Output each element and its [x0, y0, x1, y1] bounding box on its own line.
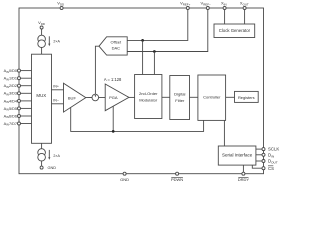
wire digital filter to controller [190, 96, 198, 98]
pin AIN0/D0 [18, 69, 21, 72]
registers block [235, 91, 259, 102]
pin AIN3/D3 [18, 92, 21, 95]
svg-text:VDD: VDD [38, 20, 45, 26]
svg-text:Registers: Registers [238, 95, 255, 100]
svg-text:IN−: IN− [53, 99, 59, 103]
svg-text:AIN1/D1: AIN1/D1 [4, 77, 17, 82]
wire serial interface to CS pin [252, 165, 262, 168]
wire serial interface to SCLK pin [256, 148, 262, 150]
wire VREF+ junction down to modulator [142, 40, 144, 74]
svg-text:AIN2/D2: AIN2/D2 [4, 84, 17, 89]
chip outline U1 [19, 8, 264, 174]
digital filter block [170, 76, 190, 120]
svg-text:PGA: PGA [109, 95, 118, 100]
pin DIN [262, 153, 265, 156]
pin PDWN (active low, bottom) [176, 172, 179, 175]
wire pin AIN2 to MUX [21, 85, 32, 87]
wire pin AIN4 to MUX [21, 100, 32, 102]
svg-text:2×A: 2×A [53, 154, 60, 158]
junction VREF- net [153, 50, 156, 53]
pin VDD (top) [60, 7, 63, 10]
wire pin AIN0 to MUX [21, 70, 32, 72]
wire VDD terminal to current source I1 [41, 29, 43, 35]
pin AIN6/D6 [18, 115, 21, 118]
wire pin AIN6 to MUX [21, 115, 32, 117]
pin XIN (top) [223, 7, 226, 10]
pin DRDY (active low, bottom) [242, 172, 245, 175]
svg-text:BUF: BUF [68, 95, 77, 100]
buffer amplifier BUF [64, 83, 86, 112]
wire PGA output to modulator [129, 96, 135, 98]
svg-text:Digital: Digital [174, 92, 185, 97]
svg-text:DOUT: DOUT [268, 159, 278, 165]
svg-text:Clock Generator: Clock Generator [219, 28, 251, 33]
wire VREF+ net: pin to DAC and modulator [127, 10, 188, 41]
svg-text:A = 1:128: A = 1:128 [104, 77, 122, 82]
wire current source I1 to MUX top [41, 48, 43, 55]
svg-text:2×A: 2×A [53, 39, 60, 43]
svg-text:Controller: Controller [203, 95, 221, 100]
pin AIN7/D7 [18, 122, 21, 125]
wire pin AIN7 to MUX [21, 123, 32, 125]
pin AIN5/D5 [18, 107, 21, 110]
svg-text:2nd-Order: 2nd-Order [139, 91, 158, 96]
svg-text:Serial Interface: Serial Interface [222, 152, 253, 157]
svg-text:Offset: Offset [110, 39, 121, 44]
pin CS (active low) [262, 167, 265, 170]
pin XOUT (top) [243, 7, 246, 10]
svg-text:DIN: DIN [268, 152, 274, 158]
wire MUX to BUF IN- [52, 103, 64, 105]
wire serial interface to DRDY pin [242, 165, 244, 172]
current source I1 VDD terminal [40, 26, 43, 29]
MUX block [32, 54, 52, 143]
svg-text:DAC: DAC [112, 46, 121, 51]
svg-text:IN+: IN+ [53, 84, 59, 88]
wire VREF- junction down to modulator [153, 52, 155, 75]
arrow for I2 [48, 150, 50, 158]
svg-text:Filter: Filter [175, 98, 185, 103]
pin AIN1/D1 [18, 77, 21, 80]
arrow for I1 [48, 36, 50, 44]
pin DOUT [262, 160, 265, 163]
svg-text:AIN0/D0: AIN0/D0 [4, 69, 17, 74]
junction VREF+ net [141, 39, 144, 42]
svg-text:SCLK: SCLK [268, 147, 279, 152]
wire pin AIN3 to MUX [21, 92, 32, 94]
svg-text:AIN5/D5: AIN5/D5 [4, 107, 17, 112]
pin AIN4/D4 [18, 99, 21, 102]
wire BUF output to summing node [86, 97, 92, 99]
junction on analog common line [112, 130, 115, 133]
pin GND (bottom) [123, 172, 126, 175]
svg-text:XOUT: XOUT [240, 0, 249, 6]
svg-text:VDD: VDD [57, 0, 64, 6]
pin AIN2/D2 [18, 84, 21, 87]
wire MUX bottom to current source I2 [41, 143, 43, 149]
serial interface block [218, 146, 256, 165]
svg-text:AIN6/D6: AIN6/D6 [4, 114, 17, 119]
svg-text:XIN: XIN [221, 0, 227, 6]
controller block [198, 75, 226, 120]
wire XOUT to clock generator [244, 10, 246, 25]
svg-text:AIN4/D4: AIN4/D4 [4, 99, 17, 104]
current source I2 (2xA burnout source) [38, 149, 46, 157]
wire serial interface to DOUT pin [256, 160, 262, 162]
clock generator block [214, 24, 255, 38]
summing node S1 [92, 94, 99, 101]
wire controller to registers [226, 96, 235, 98]
wire BUF bottom to analog common line [71, 107, 204, 131]
svg-text:AIN7/D7: AIN7/D7 [4, 122, 17, 127]
pin VREF+ (top) [186, 7, 189, 10]
wire XIN to clock generator [224, 10, 226, 25]
wire VREF- net: pin to DAC and modulator [127, 10, 208, 52]
offset DAC U2 [99, 37, 127, 55]
wire PGA bottom to analog common line [112, 106, 114, 131]
pin VREF- (top) [206, 7, 209, 10]
wire serial interface to DIN pin [256, 154, 262, 156]
svg-text:AIN3/D3: AIN3/D3 [4, 92, 17, 97]
svg-text:GND: GND [48, 166, 57, 170]
wire offset DAC to summing node (with arrow) [95, 46, 99, 94]
svg-text:VREF−: VREF− [201, 0, 211, 6]
svg-text:MUX: MUX [36, 93, 46, 98]
wire MUX to BUF IN+ [52, 89, 64, 91]
svg-text:Modulator: Modulator [139, 98, 158, 103]
PGA amplifier [105, 84, 129, 111]
svg-text:CS: CS [268, 166, 274, 171]
wire summing node to PGA [99, 97, 106, 99]
wire controller to serial interface [223, 120, 225, 146]
wire pin AIN1 to MUX [21, 77, 32, 79]
svg-text:GND: GND [120, 177, 129, 182]
wire modulator to digital filter [162, 96, 170, 98]
GND terminal of I2 [40, 166, 43, 169]
pin SCLK [262, 148, 265, 151]
current source I1 (2xA burnout source) [38, 35, 46, 43]
svg-text:VREF+: VREF+ [180, 0, 190, 6]
wire pin AIN5 to MUX [21, 107, 32, 109]
wire current source I2 to GND terminal [41, 161, 43, 166]
2nd-order modulator block [135, 75, 162, 119]
